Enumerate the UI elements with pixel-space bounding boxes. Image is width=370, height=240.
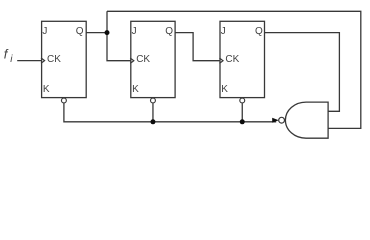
wire Q1 to node A [86, 32, 107, 34]
NAND output bubble [279, 117, 285, 123]
flip-flop U2 box [131, 21, 175, 97]
svg-text:J: J [221, 26, 226, 37]
clock arrow U1 [41, 58, 45, 63]
junction dot bus-U3 [240, 119, 245, 124]
svg-text:K: K [43, 84, 50, 95]
flip-flop U1 box [42, 21, 87, 97]
clear bubble U3 [240, 98, 245, 103]
arrowhead into NAND output bubble [272, 118, 279, 123]
NAND gate U4 (mirrored, output on left) [285, 102, 328, 138]
wire clear bus [64, 103, 276, 122]
wire K2 clear drop [152, 103, 154, 121]
wire fi input [17, 60, 41, 62]
wire node A vertical [107, 11, 131, 60]
wire K3 clear drop [241, 103, 243, 121]
svg-text:CK: CK [136, 54, 150, 65]
svg-text:CK: CK [225, 54, 239, 65]
clear bubble U2 [151, 98, 156, 103]
svg-text:Q: Q [255, 26, 263, 37]
clock arrow U3 [219, 58, 223, 63]
svg-text:Q: Q [76, 26, 84, 37]
svg-text:J: J [132, 26, 137, 37]
svg-text:f: f [4, 46, 9, 61]
clock arrow U2 [130, 58, 134, 63]
svg-text:Q: Q [165, 26, 173, 37]
svg-text:CK: CK [47, 54, 61, 65]
svg-text:J: J [42, 26, 47, 37]
wire top rail to NAND lower input [107, 11, 361, 128]
clear bubble U1 [61, 98, 66, 103]
node A junction dot [105, 30, 110, 35]
svg-text:i: i [10, 54, 13, 65]
wire Q3 to NAND upper input [265, 33, 340, 112]
flip-flop U3 box [220, 21, 265, 97]
svg-text:K: K [132, 84, 139, 95]
junction dot bus-U2 [150, 119, 155, 124]
wire Q2 to CK3 [175, 33, 220, 61]
svg-text:K: K [221, 84, 228, 95]
